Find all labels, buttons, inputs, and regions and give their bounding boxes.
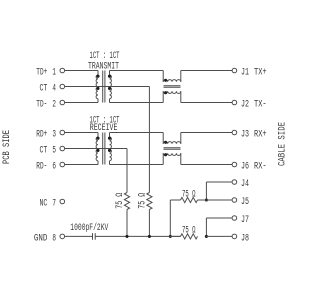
svg-text:CT: CT <box>40 146 48 157</box>
wire T2 secondary top to choke L2 <box>110 132 164 134</box>
transformer T2 (receive) primary winding (left) <box>96 133 98 165</box>
svg-text:1: 1 <box>52 68 56 79</box>
svg-text:75 Ω: 75 Ω <box>137 193 148 209</box>
label R3 75 Ohm <box>182 189 196 200</box>
choke L1 (transmit) top winding <box>163 71 181 82</box>
pin J8 (cable side) <box>232 233 249 244</box>
svg-text:TD-: TD- <box>36 100 47 111</box>
svg-text:7: 7 <box>52 199 56 210</box>
svg-text:J2: J2 <box>241 100 249 111</box>
svg-text:J1: J1 <box>241 68 249 79</box>
choke L1 (transmit) core <box>164 86 181 87</box>
transformer T1 (transmit) primary polarity dots <box>96 75 99 90</box>
wire choke L1 top to J1 <box>181 70 232 72</box>
svg-text:J7: J7 <box>241 215 249 226</box>
wire R4 to ground bus <box>170 235 180 237</box>
svg-text:J8: J8 <box>241 233 249 244</box>
label RECEIVE <box>90 123 118 134</box>
svg-text:8: 8 <box>52 233 56 244</box>
label 1CT : 1CT (transmit) <box>90 51 120 62</box>
junction R3 leg on ground bus <box>169 235 172 238</box>
svg-text:CABLE SIDE: CABLE SIDE <box>277 122 288 166</box>
junction R2 on ground bus <box>148 235 151 238</box>
wire ground bus <box>95 235 180 237</box>
wire J7 to junction <box>206 218 232 236</box>
pin 8 GND (PCB side) <box>34 233 65 244</box>
svg-text:J3: J3 <box>241 130 249 141</box>
wire T2 secondary bottom to choke L2 <box>110 164 164 166</box>
pin 1 TD+ (PCB side) <box>36 68 64 79</box>
svg-text:4: 4 <box>52 84 56 95</box>
pin J1 TX+ (cable side) <box>232 68 267 79</box>
pin 2 TD- (PCB side) <box>36 100 64 111</box>
wire R2 bottom to ground bus <box>148 210 150 237</box>
svg-text:5: 5 <box>52 146 56 157</box>
svg-text:CT: CT <box>40 84 48 95</box>
label R4 75 Ohm <box>182 225 196 236</box>
label R1 75 Ohm <box>115 193 126 209</box>
svg-text:TD+: TD+ <box>36 68 47 79</box>
svg-text:PCB SIDE: PCB SIDE <box>2 130 13 164</box>
wire TX center-tap vertical drop <box>148 87 150 193</box>
label C1 1000pF/2KV <box>70 222 108 234</box>
wire choke L2 top to J3 <box>181 132 232 134</box>
svg-text:J5: J5 <box>241 197 249 208</box>
resistor R2 75 Ohm (TX center tap to GND) <box>147 193 152 210</box>
svg-text:2: 2 <box>52 100 56 111</box>
choke L1 (transmit) polarity dot top <box>164 79 167 82</box>
wire T1 secondary top to choke L1 <box>110 70 164 72</box>
svg-text:J4: J4 <box>241 179 249 190</box>
svg-text:TX+: TX+ <box>254 68 267 79</box>
transformer T1 (transmit) secondary polarity dots <box>108 75 111 90</box>
svg-text:1000pF/2KV: 1000pF/2KV <box>70 222 108 234</box>
svg-text:J6: J6 <box>241 162 249 173</box>
wire GND pin8 to capacitor C1 <box>65 235 93 237</box>
wire choke L1 bottom to J2 <box>181 102 232 104</box>
wire CT pin4 to T1 primary center tap <box>65 86 98 88</box>
pin J7 (cable side) <box>232 215 249 226</box>
choke L1 (transmit) polarity dot bottom <box>164 91 167 94</box>
wire T1 secondary bottom to choke L1 <box>110 102 164 104</box>
svg-text:75 Ω: 75 Ω <box>182 225 196 236</box>
pin J6 RX- (cable side) <box>232 162 267 173</box>
wire J5 to R3 <box>198 199 233 201</box>
capacitor C1 1000pF/2KV <box>93 233 96 240</box>
junction R1 on ground bus <box>125 235 128 238</box>
svg-text:RX-: RX- <box>254 162 267 173</box>
wire RX center-tap vertical drop <box>126 149 128 193</box>
resistor R4 75 Ohm (J7/J8 termination) <box>181 234 198 239</box>
pin J4 (cable side) <box>232 179 249 190</box>
transformer T1 (transmit) secondary winding (right) <box>110 71 112 103</box>
pin 4 CT (PCB side) <box>40 84 65 95</box>
choke L2 (receive) core <box>164 148 181 149</box>
wire TD- pin2 to T1 primary bottom <box>65 102 98 104</box>
transformer T2 (receive) secondary winding (right) <box>110 133 112 165</box>
wire TD+ pin1 to T1 primary top <box>65 70 98 72</box>
svg-text:3: 3 <box>52 130 56 141</box>
junction J7/J8 <box>205 235 208 238</box>
transformer T2 (receive) secondary polarity dots <box>108 137 111 152</box>
wire R3 to ground bus <box>170 200 180 236</box>
wire T1 secondary center tap to drop <box>98 86 149 88</box>
wire T2 secondary center tap to drop <box>98 148 127 150</box>
choke L1 (transmit) bottom winding <box>163 91 181 102</box>
svg-text:NC: NC <box>40 199 48 210</box>
pin J3 RX+ (cable side) <box>232 130 267 141</box>
transformer T1 (transmit) core <box>103 71 105 103</box>
resistor R1 75 Ohm (RX center tap to GND) <box>124 193 129 210</box>
label R2 75 Ohm <box>137 193 148 209</box>
label 1CT : 1CT (receive) <box>90 115 120 126</box>
label TRANSMIT <box>88 61 119 72</box>
resistor R3 75 Ohm (J4/J5 termination) <box>181 197 198 202</box>
svg-text:RX+: RX+ <box>254 130 267 141</box>
svg-text:6: 6 <box>52 162 56 173</box>
pin 6 RD- (PCB side) <box>36 162 64 173</box>
transformer T1 (transmit) primary winding (left) <box>96 71 98 103</box>
svg-text:TX-: TX- <box>254 100 267 111</box>
wire RD- pin6 to T2 primary bottom <box>65 164 98 166</box>
wire R1 bottom to ground bus <box>126 210 128 237</box>
choke L2 (receive) polarity dot top <box>164 141 167 144</box>
label CABLE SIDE <box>277 122 288 166</box>
wire J4 to junction <box>206 182 232 200</box>
pin 3 RD+ (PCB side) <box>36 130 64 141</box>
svg-text:75 Ω: 75 Ω <box>115 193 126 209</box>
wire choke L2 bottom to J6 <box>181 164 232 166</box>
pin J2 TX- (cable side) <box>232 100 267 111</box>
svg-text:GND: GND <box>34 233 47 244</box>
transformer T2 (receive) core <box>103 133 105 165</box>
choke L2 (receive) top winding <box>163 133 181 144</box>
pin J5 (cable side) <box>232 197 249 208</box>
pin 7 NC (PCB side) <box>40 199 65 210</box>
choke L2 (receive) bottom winding <box>163 153 181 164</box>
pin 5 CT (PCB side) <box>40 146 65 157</box>
transformer T2 (receive) primary polarity dots <box>96 137 99 152</box>
svg-text:75 Ω: 75 Ω <box>182 189 196 200</box>
wire CT pin5 to T2 primary center tap <box>65 148 98 150</box>
svg-text:RD-: RD- <box>36 162 47 173</box>
svg-text:RD+: RD+ <box>36 130 47 141</box>
choke L2 (receive) polarity dot bottom <box>164 153 167 156</box>
label PCB SIDE <box>2 130 13 164</box>
wire J8 to junction <box>206 235 232 237</box>
wire RD+ pin3 to T2 primary top <box>65 132 98 134</box>
junction J4/J5 <box>205 198 208 201</box>
